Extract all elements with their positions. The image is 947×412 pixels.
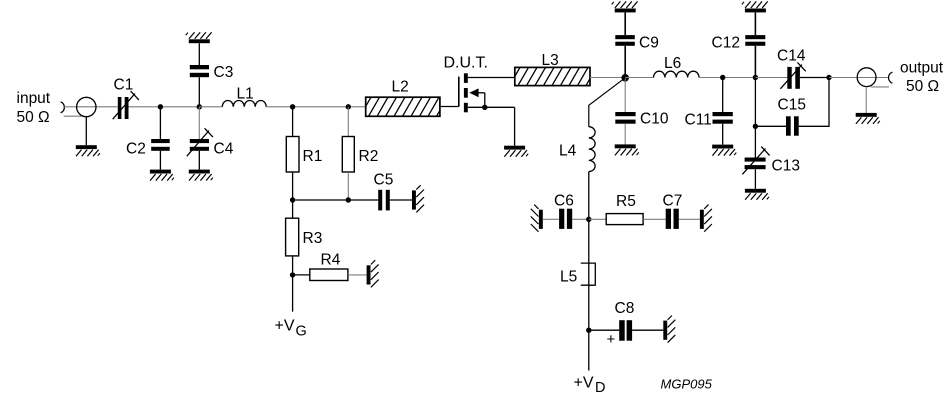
svg-text:output: output — [900, 60, 944, 77]
capacitor C5 — [378, 190, 390, 211]
chassis ground C8 — [663, 316, 675, 343]
ground input — [76, 145, 100, 156]
label C11 — [685, 112, 712, 129]
capacitor C3 — [190, 65, 209, 77]
node C15 C13 junction — [753, 124, 758, 129]
wire C10 to ground — [624, 124, 626, 145]
capacitor C1 — [113, 91, 139, 119]
label output — [900, 60, 944, 77]
microstrip L3 — [510, 67, 597, 85]
wire input circle to ground — [85, 117, 87, 146]
wire ground to C3 — [198, 43, 200, 65]
wire lower rail — [293, 199, 379, 201]
svg-text:R2: R2 — [359, 148, 379, 165]
output connector circle — [857, 68, 876, 87]
label C2 — [126, 141, 146, 158]
label C13 — [772, 158, 800, 175]
svg-text:C12: C12 — [712, 35, 740, 52]
chassis ground C7 — [700, 205, 712, 232]
svg-text:C11: C11 — [685, 112, 712, 129]
wire C15 right lead — [799, 78, 829, 127]
svg-text:MGP095: MGP095 — [661, 377, 713, 392]
label L1 — [237, 86, 254, 103]
resistor R4 — [310, 269, 348, 281]
label C1 — [114, 77, 134, 94]
label C9 — [639, 35, 659, 52]
label C7 — [663, 193, 683, 210]
wire output shield tail — [871, 86, 889, 88]
label output 50 ohm — [906, 78, 939, 95]
wire C2 to ground — [159, 151, 161, 170]
capacitor C9 — [615, 35, 635, 46]
wire C13 to ground — [754, 169, 756, 189]
wire chassis to C6 — [543, 218, 559, 220]
node C3 C4 junction — [197, 104, 202, 109]
svg-text:C14: C14 — [777, 48, 806, 65]
capacitor C10 — [615, 112, 635, 124]
svg-text:C4: C4 — [214, 141, 234, 158]
capacitor C12 — [745, 35, 765, 46]
svg-text:C2: C2 — [126, 141, 146, 158]
wire C9 to node — [624, 46, 626, 78]
svg-text:R3: R3 — [303, 230, 323, 247]
svg-text:L3: L3 — [542, 52, 559, 69]
wire R4 to chassis — [348, 274, 367, 276]
label input 50 ohm — [17, 109, 50, 126]
wire node to C11 — [722, 78, 724, 113]
wire node to L6 — [625, 77, 653, 79]
wire ground to C12 — [754, 12, 756, 35]
svg-text:+V: +V — [574, 375, 594, 392]
svg-text:L6: L6 — [664, 55, 681, 72]
wire L5 to C8 node — [588, 263, 590, 330]
svg-text:G: G — [296, 324, 307, 340]
wire L1 to R2 node — [266, 106, 366, 108]
capacitor C11 — [713, 112, 733, 124]
inductor L1 — [222, 100, 266, 106]
svg-text:L2: L2 — [392, 79, 409, 96]
node main drain — [621, 74, 629, 82]
label L4 — [559, 143, 577, 160]
wire rail node down to C15 node — [754, 78, 756, 127]
node R2 C5 junction — [346, 197, 351, 202]
label C8 plus — [607, 331, 616, 348]
svg-text:C10: C10 — [640, 111, 669, 128]
svg-text:C7: C7 — [663, 193, 683, 210]
label C14 — [777, 48, 806, 65]
label R1 — [303, 148, 323, 165]
wire DUT source — [468, 106, 515, 108]
capacitor C13 — [742, 147, 769, 175]
resistor R3 — [286, 218, 299, 256]
capacitor C6 — [559, 209, 572, 229]
wire node to VD — [588, 330, 590, 370]
wire L2 to gate — [440, 106, 459, 108]
wire DUT drain — [468, 77, 515, 79]
wire node to C8 — [589, 329, 619, 331]
wire node to R3 — [292, 200, 294, 218]
label C10 — [640, 111, 669, 128]
label L6 — [664, 55, 681, 72]
input connector circle — [77, 97, 96, 116]
resistor R5 — [606, 214, 643, 225]
svg-text:D.U.T.: D.U.T. — [444, 55, 488, 72]
wire R5 to C7 — [643, 218, 666, 220]
svg-text:C5: C5 — [374, 172, 394, 189]
label C4 — [214, 141, 234, 158]
label C12 — [712, 35, 740, 52]
wire node to R5 — [589, 218, 606, 220]
wire L4 to C6 node — [588, 172, 590, 220]
chassis ground C6 left — [531, 205, 543, 232]
ground C11 — [712, 145, 736, 156]
label L5 — [560, 269, 577, 286]
capacitor C15 — [786, 116, 799, 135]
label R5 — [616, 193, 636, 210]
label C5 — [374, 172, 394, 189]
wire node to R2 — [347, 107, 349, 137]
node C14 C15 right — [826, 75, 831, 80]
ground C3 top — [186, 32, 212, 43]
svg-text:L5: L5 — [560, 269, 577, 286]
svg-text:C6: C6 — [554, 193, 574, 210]
node R1 top — [290, 104, 295, 109]
node R2 top — [346, 104, 351, 109]
ground C4 — [189, 170, 213, 181]
wire R2 to lower rail — [347, 172, 349, 200]
inductor L6 — [654, 71, 700, 77]
node C6 R5 junction — [586, 217, 591, 222]
ground C2 — [150, 170, 174, 181]
wire input shield tail — [64, 115, 84, 117]
node C2 junction — [158, 104, 163, 109]
transistor DUT channel bars — [464, 73, 468, 112]
svg-text:R5: R5 — [616, 193, 636, 210]
node C8 junction — [586, 328, 591, 333]
ground C12 top — [742, 1, 768, 12]
label C15 — [778, 97, 806, 114]
transistor DUT gate bar — [458, 77, 460, 107]
wire R3 to R4 node — [292, 256, 294, 275]
input connector arc — [61, 102, 65, 113]
label D.U.T. — [444, 55, 488, 72]
chassis ground R4 — [367, 260, 379, 287]
transistor DUT bulk arrow — [469, 88, 485, 107]
wire output circle to ground — [865, 87, 867, 113]
microstrip L2 — [360, 97, 448, 116]
svg-text:C15: C15 — [778, 97, 806, 114]
wire C13 stem — [754, 126, 756, 157]
capacitor C8 — [619, 320, 632, 341]
label L3 — [542, 52, 559, 69]
wire C3 to node — [198, 77, 200, 107]
wire C7 to chassis — [679, 218, 700, 220]
wire C6 to node — [572, 218, 589, 220]
label R4 — [321, 252, 341, 269]
wire C11 to ground — [722, 124, 724, 145]
ground output — [856, 113, 880, 124]
wire ground to C9 — [624, 12, 626, 35]
capacitor C7 — [666, 209, 679, 229]
wire L3 to main node — [590, 77, 625, 79]
label C6 — [554, 193, 574, 210]
wire C5 to chassis — [390, 199, 412, 201]
node DUT source — [482, 105, 487, 110]
svg-text:C9: C9 — [639, 35, 659, 52]
svg-text:+: + — [607, 331, 616, 348]
label +VG — [275, 318, 307, 340]
ground C13 — [745, 189, 769, 200]
wire node to L5 — [588, 219, 590, 263]
inductor L4 — [589, 127, 595, 172]
svg-text:C8: C8 — [615, 300, 635, 317]
svg-text:L4: L4 — [559, 143, 577, 160]
label R2 — [359, 148, 379, 165]
wire node to C4 — [198, 107, 200, 139]
inductor L5 — [581, 263, 596, 285]
svg-text:C1: C1 — [114, 77, 134, 94]
wire node to VG — [292, 275, 294, 312]
wire C4 to ground — [198, 151, 200, 170]
svg-text:50 Ω: 50 Ω — [906, 78, 939, 95]
node R4 junction — [290, 272, 295, 277]
wire node to L1 — [199, 106, 222, 108]
ground DUT source — [504, 146, 528, 157]
svg-text:C3: C3 — [214, 64, 234, 81]
wire input to C1 — [64, 106, 118, 108]
node R1 R3 junction — [290, 197, 295, 202]
node C12 rail — [753, 75, 758, 80]
label input — [17, 90, 51, 107]
wire C14 to node — [800, 77, 829, 79]
wire R1 to lower rail — [292, 172, 294, 200]
chassis ground C5 — [412, 185, 424, 212]
svg-text:input: input — [17, 90, 51, 107]
svg-text:+V: +V — [275, 318, 295, 335]
wire L6 to C11 node — [699, 77, 754, 79]
capacitor C14 — [780, 62, 805, 88]
label L2 — [392, 79, 409, 96]
label C8 — [615, 300, 635, 317]
wire node to R4 — [293, 274, 310, 276]
resistor R1 — [286, 137, 299, 173]
wire C1 to node — [129, 106, 200, 108]
svg-text:50 Ω: 50 Ω — [17, 109, 50, 126]
resistor R2 — [342, 137, 354, 173]
capacitor C2 — [151, 139, 170, 151]
ground C10 — [615, 144, 639, 155]
svg-text:R4: R4 — [321, 252, 341, 269]
capacitor C4 — [187, 128, 213, 156]
svg-text:D: D — [595, 380, 605, 396]
label +VD — [574, 375, 606, 397]
wire node to C2 — [159, 107, 161, 139]
wire C12 to rail — [754, 46, 756, 78]
svg-text:C13: C13 — [772, 158, 800, 175]
wire node diagonal to L4 — [589, 78, 625, 127]
label R3 — [303, 230, 323, 247]
svg-text:R1: R1 — [303, 148, 323, 165]
svg-text:L1: L1 — [237, 86, 254, 103]
label C3 — [214, 64, 234, 81]
wire source to ground — [514, 107, 516, 145]
ground C9 top — [612, 1, 638, 12]
node C11 top — [720, 75, 725, 80]
label MGP095 — [661, 377, 713, 392]
wire node to R1 — [292, 107, 294, 137]
wire node to output — [829, 77, 889, 79]
output connector arc — [889, 72, 893, 83]
wire C8 to chassis — [632, 329, 663, 331]
wire rail node to C14 — [755, 77, 787, 79]
wire node to C10 — [624, 78, 626, 113]
wire C15 left lead — [755, 125, 786, 127]
